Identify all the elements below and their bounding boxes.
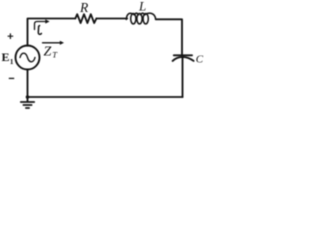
svg-text:E: E <box>2 50 10 64</box>
capacitor C curved bottom plate <box>173 57 194 61</box>
inductor L coil loop 2 <box>137 14 142 24</box>
resistor R zigzag <box>75 14 96 23</box>
label minus <box>9 77 14 79</box>
svg-text:R: R <box>79 0 89 15</box>
svg-text:L: L <box>138 0 146 13</box>
ZT arrowhead <box>60 41 64 45</box>
inductor L coil loop 3 <box>143 14 148 24</box>
wire inductor to right corner, down to capacitor <box>156 19 182 54</box>
label i current (drawn glyph) <box>38 26 41 35</box>
svg-text:Z: Z <box>44 44 52 59</box>
inductor hump 2-3 <box>141 13 145 15</box>
inductor entry hump <box>126 13 134 19</box>
current arrowhead <box>45 19 49 23</box>
bottom wire <box>28 96 183 98</box>
capacitor lower lead <box>182 58 184 97</box>
inductor exit hump <box>145 13 156 19</box>
svg-text:C: C <box>196 53 204 65</box>
svg-text:1: 1 <box>10 57 14 66</box>
wire resistor to inductor <box>96 18 127 20</box>
source lower lead + ground stub <box>27 69 29 101</box>
impedance ZT arrow line <box>43 42 61 44</box>
AC source circle E <box>16 46 40 70</box>
ground bar 2 <box>23 104 31 106</box>
capacitor C top plate <box>174 54 192 56</box>
ground bar 3 <box>26 107 29 109</box>
ground bar 1 <box>21 101 34 103</box>
current arrow hook <box>35 22 46 30</box>
junction dot <box>26 95 30 99</box>
sine wave inside source <box>20 53 35 62</box>
label + <box>8 33 14 39</box>
wire top-left vertical + top run to resistor <box>28 19 76 46</box>
inductor hump 1-2 <box>134 13 138 15</box>
inductor L coil loop 1 <box>131 14 136 24</box>
svg-text:T: T <box>52 50 58 60</box>
